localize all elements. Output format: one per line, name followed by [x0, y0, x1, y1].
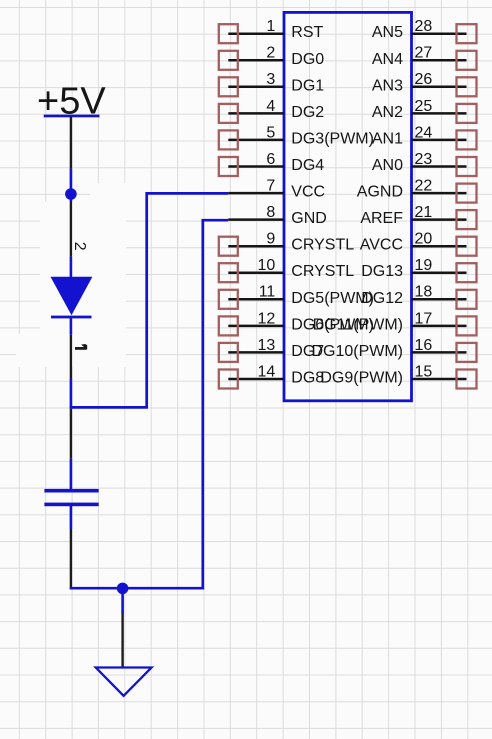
svg-text:GND: GND [291, 210, 327, 227]
svg-text:AN5: AN5 [372, 24, 403, 41]
svg-text:DG9(PWM): DG9(PWM) [320, 370, 403, 387]
junction [117, 583, 129, 595]
svg-text:11: 11 [259, 284, 276, 301]
svg-text:AVCC: AVCC [360, 237, 403, 254]
svg-text:16: 16 [415, 337, 433, 354]
svg-text:2: 2 [71, 242, 88, 251]
pin 28 AN5 [372, 18, 477, 43]
svg-text:28: 28 [415, 18, 433, 35]
svg-text:5: 5 [266, 124, 275, 141]
svg-text:27: 27 [415, 45, 433, 62]
svg-text:12: 12 [258, 310, 276, 327]
svg-text:DG2: DG2 [291, 104, 324, 121]
pin 2 DG0 [219, 45, 324, 70]
svg-text:20: 20 [415, 231, 433, 248]
svg-text:CRYSTL: CRYSTL [291, 237, 354, 254]
junction [65, 188, 77, 200]
wire [70, 459, 73, 489]
capacitor C1 [44, 489, 98, 529]
wire VCC horizontal [70, 193, 229, 407]
wire [70, 335, 72, 379]
svg-text:13: 13 [258, 337, 276, 354]
op-amp U1 IC body [284, 12, 412, 400]
pin 12 DG6(PWM) [219, 310, 374, 335]
pin 3 DG1 [219, 71, 324, 96]
diode D1 [51, 242, 93, 350]
svg-text:10: 10 [258, 257, 276, 274]
pin 13 DG7 [219, 337, 324, 362]
svg-text:21: 21 [415, 204, 433, 221]
ground [96, 668, 152, 696]
pin 18 DG12 [361, 284, 476, 309]
pin 25 AN2 [372, 98, 477, 123]
wire bottom horizontal [70, 587, 204, 590]
pin 23 AN0 [372, 151, 477, 176]
pin 15 DG9(PWM) [320, 363, 476, 388]
pin 8 GND [228, 204, 327, 227]
wire [70, 201, 72, 257]
pin 5 DG3(PWM) [219, 124, 374, 149]
wire [70, 117, 72, 169]
wire [70, 379, 73, 409]
pin 19 DG13 [361, 257, 476, 282]
svg-text:25: 25 [415, 98, 433, 115]
svg-text:1: 1 [266, 18, 275, 35]
pin 14 DG8 [219, 363, 324, 388]
pin 17 DG11(PWM) [313, 310, 477, 335]
svg-text:DG12: DG12 [361, 290, 403, 307]
svg-text:15: 15 [415, 363, 433, 380]
svg-text:2: 2 [266, 45, 275, 62]
pin 7 VCC [228, 178, 325, 201]
wire [121, 614, 123, 667]
pin 1 RST [219, 18, 324, 43]
svg-text:17: 17 [415, 310, 433, 327]
wire GND vertical [203, 220, 229, 589]
pin 27 AN4 [372, 45, 477, 70]
pin 21 AREF [360, 204, 476, 229]
wire [70, 529, 72, 589]
svg-text:DG3(PWM): DG3(PWM) [291, 130, 374, 147]
svg-text:DG11(PWM): DG11(PWM) [313, 316, 403, 333]
pin 22 AGND [357, 178, 477, 203]
svg-text:AREF: AREF [360, 210, 403, 227]
pin 24 AN1 [372, 124, 477, 149]
svg-text:DG10(PWM): DG10(PWM) [311, 343, 403, 360]
svg-text:CRYSTL: CRYSTL [291, 263, 354, 280]
pin number 1 [75, 345, 86, 350]
pin 11 DG5(PWM) [219, 284, 374, 309]
pin 10 CRYSTL [219, 257, 354, 282]
svg-text:DG0: DG0 [291, 51, 324, 68]
pin 6 DG4 [219, 151, 324, 176]
svg-text:7: 7 [266, 178, 275, 195]
svg-text:AN0: AN0 [372, 157, 403, 174]
svg-text:24: 24 [415, 124, 433, 141]
svg-text:DG13: DG13 [361, 263, 403, 280]
svg-text:AN3: AN3 [372, 77, 403, 94]
svg-text:3: 3 [266, 71, 275, 88]
svg-text:22: 22 [415, 178, 433, 195]
svg-text:9: 9 [266, 231, 275, 248]
svg-text:14: 14 [258, 363, 276, 380]
svg-text:8: 8 [266, 204, 275, 221]
svg-text:AGND: AGND [357, 184, 403, 201]
svg-text:VCC: VCC [291, 184, 325, 201]
power symbol +5V [37, 81, 106, 123]
svg-text:18: 18 [415, 284, 433, 301]
wire [70, 409, 72, 459]
pin 20 AVCC [360, 231, 477, 256]
svg-text:23: 23 [415, 151, 433, 168]
pin 9 CRYSTL [219, 231, 354, 256]
pin 4 DG2 [219, 98, 324, 123]
svg-text:AN2: AN2 [372, 104, 403, 121]
wire [70, 168, 73, 201]
svg-text:RST: RST [291, 24, 323, 41]
pin 26 AN3 [372, 71, 477, 96]
svg-text:AN1: AN1 [372, 130, 403, 147]
wire [121, 589, 124, 614]
svg-text:DG4: DG4 [291, 157, 324, 174]
svg-text:DG1: DG1 [291, 77, 324, 94]
pin 16 DG10(PWM) [311, 337, 476, 362]
svg-text:26: 26 [415, 71, 433, 88]
svg-text:AN4: AN4 [372, 51, 403, 68]
svg-text:19: 19 [415, 257, 433, 274]
svg-text:4: 4 [266, 98, 275, 115]
svg-text:DG8: DG8 [291, 370, 324, 387]
svg-text:6: 6 [266, 151, 275, 168]
